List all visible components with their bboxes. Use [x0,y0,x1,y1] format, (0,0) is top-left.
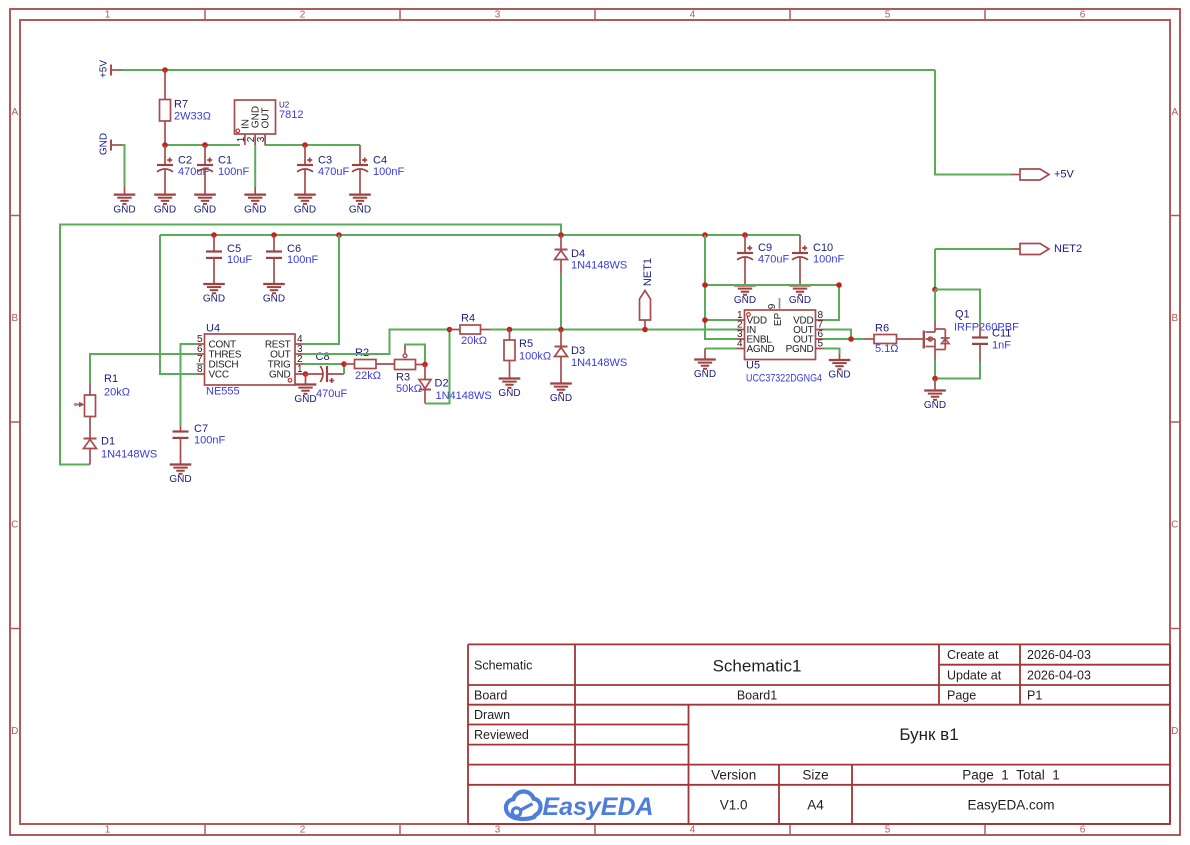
diode D4 [555,235,568,273]
capacitor C9 [737,235,753,286]
ground C6 [263,284,285,305]
wire CONT to C7 [181,344,197,426]
svg-text:2: 2 [300,824,306,835]
ground C9 [734,286,756,307]
svg-text:R6: R6 [875,323,889,335]
svg-text:Board: Board [474,689,507,703]
svg-text:4: 4 [690,824,696,835]
svg-text:GND: GND [294,204,316,215]
ground C3 [294,195,316,216]
junction VDD pin1 [702,317,708,323]
svg-text:EP: EP [773,313,784,327]
diode D3 [555,330,568,384]
ground PGND [828,354,850,381]
junction U5 rail [702,232,708,238]
label C1 [218,155,249,179]
U4 pin 1 GND [269,364,303,381]
svg-text:470uF: 470uF [758,254,789,266]
svg-text:Бунк в1: Бунк в1 [899,725,958,744]
svg-text:GND: GND [294,394,316,405]
wire signal to driver [490,329,737,331]
svg-text:10uF: 10uF [227,254,252,266]
svg-text:R3: R3 [396,372,410,384]
wire VCC drop [160,235,197,374]
label C6 [287,243,318,266]
svg-text:GND: GND [694,369,716,380]
capacitor C3 [297,145,313,195]
svg-text:GND: GND [169,474,191,485]
label R4 [461,313,487,348]
svg-text:NE555: NE555 [206,386,240,398]
svg-text:NET2: NET2 [1054,243,1082,255]
svg-text:Schematic1: Schematic1 [713,657,802,676]
svg-text:Q1: Q1 [955,309,970,321]
svg-text:4: 4 [737,339,743,350]
svg-text:C9: C9 [758,242,772,254]
label R6 [875,323,899,356]
svg-text:100nF: 100nF [194,435,225,447]
label R7 [174,99,211,123]
svg-text:5: 5 [885,824,891,835]
wire OUT pin6 [824,338,865,340]
svg-text:EasyEDA.com: EasyEDA.com [967,798,1054,813]
svg-text:2: 2 [300,9,306,20]
svg-text:100nF: 100nF [287,254,318,266]
junction U4 GND [303,371,309,377]
svg-text:D2: D2 [435,378,449,390]
junction R3/D2 [422,362,428,368]
label D1 [101,436,157,461]
port NET1 [640,258,655,330]
wire OUT pin7 [824,330,852,340]
U2 pin IN label [241,119,252,129]
wire VDD right branch [705,285,839,320]
svg-text:C: C [11,520,18,531]
junction REST rail [336,232,342,238]
label C11 [992,328,1011,352]
wire D2 to R4 node [425,330,450,404]
svg-text:R4: R4 [461,313,475,325]
svg-text:GND: GND [244,204,266,215]
svg-text:C1: C1 [218,155,232,167]
wire NET2 drop [935,249,1011,290]
svg-text:D1: D1 [101,436,115,448]
svg-text:20kΩ: 20kΩ [104,387,130,399]
svg-text:C8: C8 [316,351,330,363]
wire R3 wiper [405,345,425,365]
svg-text:GND: GND [828,370,850,381]
wire D4 to node [560,273,562,330]
junction NET1 [642,327,648,333]
U2 pin GND label [251,106,262,128]
svg-text:C4: C4 [373,155,387,167]
svg-text:2W33Ω: 2W33Ω [174,111,211,123]
ground C1 [194,195,216,216]
resistor R7 [160,70,171,145]
svg-text:Drawn: Drawn [474,708,510,722]
label D3 [571,345,627,369]
junction TRIG [341,361,347,367]
label U2 [279,101,303,122]
label C8 [316,351,348,400]
svg-text:U5: U5 [746,360,760,372]
junction VDD pin8 [836,282,842,288]
capacitor C10 [792,235,808,286]
svg-text:1N4148WS: 1N4148WS [436,390,492,402]
U4 pin 6 THRES [197,344,242,361]
gate driver U5 body [745,310,816,360]
svg-text:100nF: 100nF [373,166,404,178]
net flag GND [99,133,123,155]
ground C4 [349,195,371,216]
U4 pin 7 DISCH [197,354,239,371]
diode D1 [84,439,97,465]
svg-text:1: 1 [297,364,303,375]
svg-text:100nF: 100nF [218,166,249,178]
svg-text:A4: A4 [807,798,824,813]
net flag +5V [99,60,123,78]
svg-text:4: 4 [690,9,696,20]
svg-text:22kΩ: 22kΩ [355,370,381,382]
svg-text:GND: GND [269,370,291,381]
svg-text:GND: GND [349,204,371,215]
capacitor C5 [206,235,222,284]
junction R5 [507,327,513,333]
svg-text:C3: C3 [318,155,332,167]
label R1 [104,373,130,399]
svg-text:Version: Version [711,768,756,783]
U5 pin 6 OUT [793,329,823,346]
U5 pin 3 ENBL [737,329,773,346]
junction C9 rail [742,232,748,238]
U5 pin 9 EP [767,298,784,326]
wire OUT [303,330,450,355]
junction D4 rail [558,232,564,238]
svg-text:D3: D3 [571,345,585,357]
ground R5 [498,379,520,400]
svg-text:20kΩ: 20kΩ [461,335,487,347]
resistor R2 [344,360,395,369]
svg-text:Page: Page [947,689,976,703]
svg-text:+5V: +5V [99,60,110,78]
label C5 [227,243,252,266]
label Q1 [954,309,1019,334]
regulator U2 body [235,100,276,145]
U4 pin 8 VCC [197,364,229,381]
svg-text:EasyEDA: EasyEDA [542,793,653,821]
ground Q1 [924,379,946,412]
label C4 [373,155,404,179]
junction +5V/R7 [162,67,168,73]
ground C2 [154,195,176,216]
svg-text:U4: U4 [206,323,220,335]
capacitor C1 [197,145,213,195]
wire 12V in rail [165,144,240,146]
U5 pin 4 AGND [737,339,775,356]
svg-text:Page 1 Total 1: Page 1 Total 1 [962,768,1060,783]
label U5 [746,360,822,385]
junction C1 [202,142,208,148]
potentiometer R3 [395,346,426,370]
label R3 [396,372,422,396]
U4 pin 5 CONT [197,334,236,351]
junction Q1 source [932,376,938,382]
svg-text:GND: GND [498,388,520,399]
svg-text:100nF: 100nF [813,254,844,266]
U5 pin 7 OUT [793,320,823,337]
svg-text:D4: D4 [571,248,585,260]
svg-text:Size: Size [802,768,828,783]
capacitor C4 [352,145,368,195]
svg-text:470uF: 470uF [316,388,347,400]
potentiometer R1 [74,384,96,439]
wire VDD column [705,235,737,339]
wire 12V rail [160,234,800,236]
label C2 [178,155,209,179]
svg-text:B: B [11,313,18,324]
U4 pin 2 TRIG [268,354,303,371]
wire drain [934,290,936,322]
ground C5 [203,284,225,305]
svg-text:6: 6 [1080,9,1086,20]
ground U4 [294,374,316,405]
U5 pin 1 VDD [737,310,767,327]
op-amp U4 NE555 body [205,334,296,385]
junction OUT [848,336,854,342]
svg-text:GND: GND [113,204,135,215]
port NET2 [1011,243,1082,255]
capacitor C11 [972,325,988,362]
svg-text:C: C [1171,520,1178,531]
wire PGND [824,349,840,355]
svg-text:A: A [1171,107,1178,118]
svg-text:GND: GND [550,393,572,404]
wire C11 bottom [935,362,980,379]
svg-text:8: 8 [197,364,203,375]
resistor R4 [450,325,491,334]
svg-text:7812: 7812 [279,109,303,121]
svg-text:Create at: Create at [947,648,999,662]
U2 pin 1 number [236,136,247,142]
svg-text:VCC: VCC [209,370,229,381]
U4 pin 3 OUT [270,344,303,361]
svg-text:PGND: PGND [786,344,814,355]
label C9 [758,242,789,266]
svg-text:R1: R1 [104,373,118,385]
ground C7 [169,465,191,486]
port +5V [1011,169,1075,181]
svg-text:50kΩ: 50kΩ [396,383,422,395]
wire AGND [705,348,737,350]
ground U2 [244,187,266,215]
U4 pin 4 REST [265,334,303,351]
svg-text:Reviewed: Reviewed [474,728,529,742]
wire +5V down to port [935,70,1011,175]
svg-text:GND: GND [734,295,756,306]
svg-text:5: 5 [818,339,824,350]
wire +5V rail [122,69,935,71]
wire U5 pin1 [705,319,737,321]
wire U4 GND pin [303,373,306,375]
resistor R5 [504,330,515,379]
junction D3/D4 [558,327,564,333]
label R5 [519,338,551,363]
ground D3 [550,384,572,405]
junction R4 left [447,327,453,333]
title block table [468,644,1170,824]
wire source [934,360,936,379]
U2 pin OUT label [261,107,272,128]
svg-text:1: 1 [105,824,111,835]
svg-text:V1.0: V1.0 [720,798,748,813]
junction VDD branch [702,282,708,288]
wire GND flag [122,145,125,186]
svg-text:Board1: Board1 [737,689,777,703]
wire 12V out rail [265,144,361,146]
label C3 [318,155,349,179]
svg-text:2026-04-03: 2026-04-03 [1027,669,1091,683]
svg-text:C7: C7 [194,423,208,435]
svg-text:NET1: NET1 [642,258,654,286]
label C10 [813,242,844,266]
svg-text:R5: R5 [519,338,533,350]
wire U2 pin2 to ground [254,145,256,187]
ground C10 [789,286,811,307]
U2 pin 2 number [246,136,257,142]
svg-text:5: 5 [885,9,891,20]
svg-text:5.1Ω: 5.1Ω [875,343,899,355]
svg-text:GND: GND [99,133,110,155]
svg-text:P1: P1 [1027,689,1042,703]
junction C6 [271,232,277,238]
svg-text:AGND: AGND [747,344,775,355]
svg-text:C11: C11 [992,328,1011,340]
label D2 [435,378,492,403]
svg-text:100kΩ: 100kΩ [519,351,551,363]
wire D1 loop [60,225,561,465]
svg-text:1N4148WS: 1N4148WS [101,449,157,461]
svg-text:1N4148WS: 1N4148WS [571,260,627,272]
transistor Q1 [924,321,950,360]
wire C11 top [935,290,980,326]
svg-text:9: 9 [767,303,778,309]
svg-text:D: D [1171,726,1178,737]
title block text [474,648,1091,813]
svg-text:A: A [11,107,18,118]
svg-text:470uF: 470uF [318,166,349,178]
svg-text:GND: GND [154,204,176,215]
label R2 [355,347,381,382]
svg-text:GND: GND [789,295,811,306]
junction Q1 drain [932,287,938,293]
svg-text:1: 1 [105,9,111,20]
svg-text:+5V: +5V [1054,169,1075,181]
svg-text:GND: GND [263,294,285,305]
ground GND flag [113,186,135,215]
svg-text:C2: C2 [178,155,192,167]
U5 pin 2 IN [737,320,757,337]
U2 pin 3 number [256,136,267,142]
svg-text:1N4148WS: 1N4148WS [571,357,627,369]
svg-text:UCC37322DGNG4: UCC37322DGNG4 [746,373,822,385]
label D4 [571,248,627,272]
svg-text:Update at: Update at [947,669,1002,683]
svg-text:1nF: 1nF [992,340,1011,352]
label C7 [194,423,225,447]
U5 pin 5 PGND [786,339,824,356]
U5 pin 8 VDD [793,310,823,327]
EasyEDA logo [506,792,654,822]
capacitor C8 [306,363,345,383]
svg-text:6: 6 [1080,824,1086,835]
ground AGND [694,349,716,381]
label U4 [206,323,240,398]
svg-text:B: B [1171,313,1178,324]
svg-text:C10: C10 [813,242,833,254]
svg-text:OUT: OUT [261,107,272,128]
junction C5 [211,232,217,238]
svg-text:2026-04-03: 2026-04-03 [1027,648,1091,662]
capacitor C7 [173,426,189,465]
junction C2 [162,142,168,148]
resistor R6 [864,335,923,344]
diode D2 [419,365,431,404]
svg-text:GND: GND [203,294,225,305]
junction C3 [302,142,308,148]
wire TRIG [303,363,344,365]
svg-text:R7: R7 [174,99,188,111]
capacitor C2 [157,145,173,195]
svg-text:3: 3 [495,824,501,835]
capacitor C6 [266,235,282,284]
wire THRES to R1 [90,354,197,384]
svg-text:GND: GND [194,204,216,215]
svg-text:3: 3 [256,136,267,142]
svg-text:D: D [11,726,18,737]
svg-text:3: 3 [495,9,501,20]
wire REST [303,235,339,344]
svg-text:GND: GND [924,400,946,411]
svg-text:Schematic: Schematic [474,659,532,673]
